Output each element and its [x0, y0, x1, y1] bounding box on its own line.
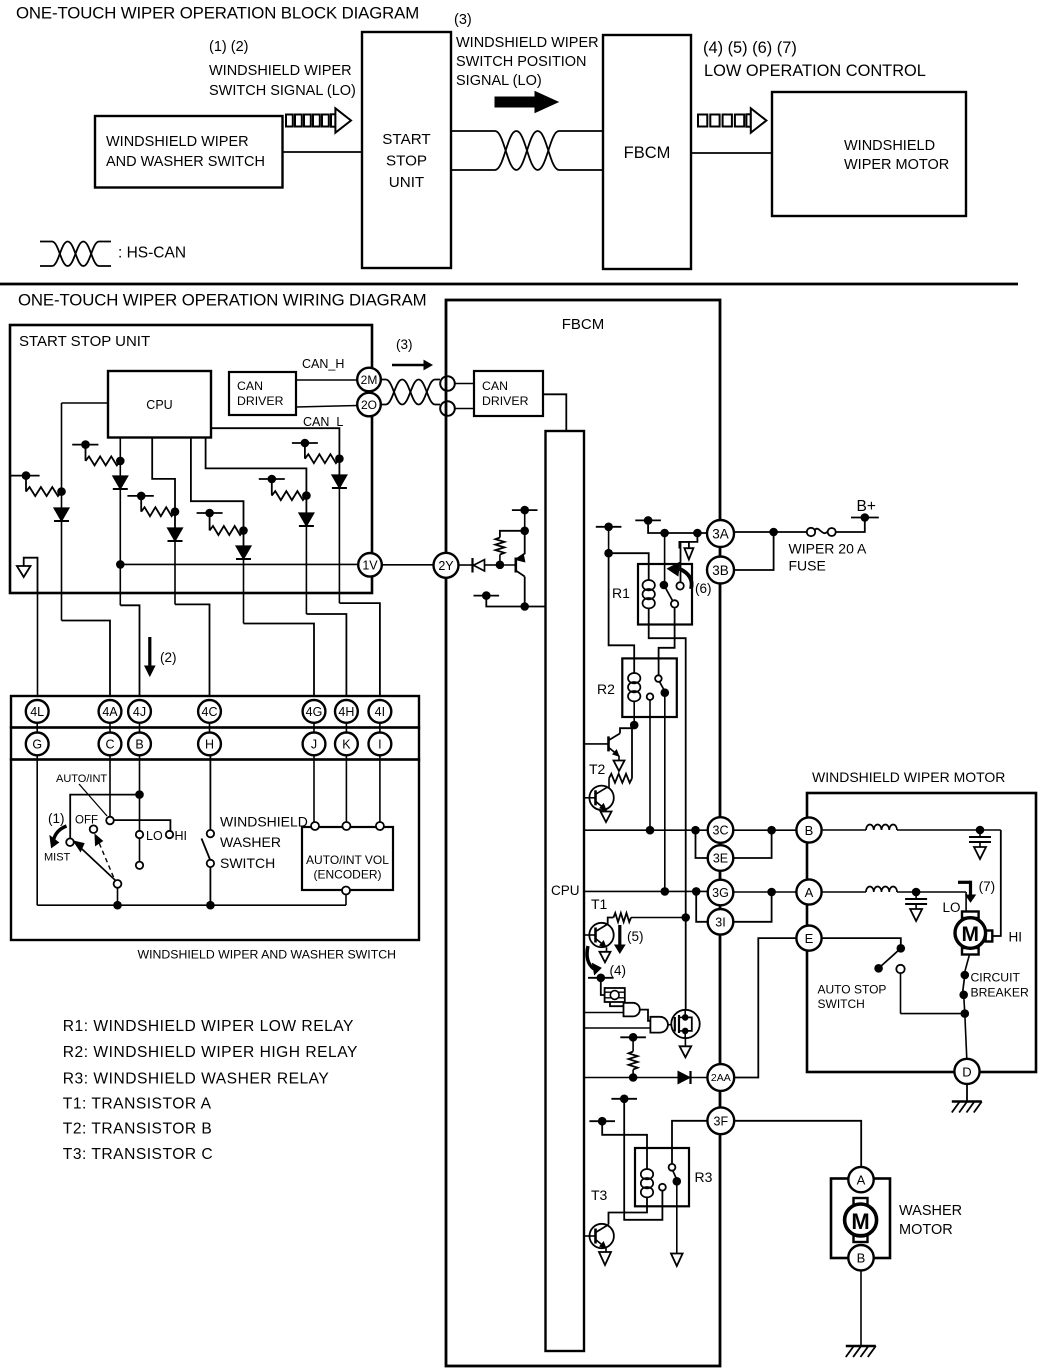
- connector 4C: [198, 700, 221, 723]
- svg-text:SWITCH SIGNAL (LO): SWITCH SIGNAL (LO): [209, 83, 356, 99]
- wire switch to start stop unit: [283, 151, 363, 153]
- wire 3G to A: [733, 891, 796, 893]
- relay R1 NO wire up: [680, 542, 682, 582]
- washer connector B: [848, 1245, 873, 1270]
- svg-text:2O: 2O: [361, 398, 377, 412]
- curved arrow (6): [679, 569, 692, 590]
- connector pin link 4G-J: [313, 722, 315, 733]
- relay R1 coil bottom wire: [649, 609, 686, 1010]
- wire tick to cpu: [486, 596, 545, 607]
- washer motor M: [854, 1198, 868, 1206]
- capacitor A to ground: [915, 892, 917, 899]
- connector 3C: [708, 817, 734, 843]
- auto/int leader line: [79, 784, 107, 816]
- svg-text:4C: 4C: [202, 705, 218, 719]
- svg-text:AUTO/INT VOL: AUTO/INT VOL: [306, 853, 389, 867]
- svg-text:B: B: [857, 1251, 866, 1266]
- wire G down: [36, 755, 38, 905]
- auto/int contact: [106, 817, 114, 825]
- connector I: [369, 733, 392, 756]
- svg-text:3G: 3G: [712, 886, 729, 900]
- wire 3E loop inside: [696, 830, 708, 858]
- cell4 junction dot: [239, 526, 248, 535]
- svg-text:(4) (5) (6) (7): (4) (5) (6) (7): [703, 39, 797, 57]
- connector 4J: [128, 700, 151, 723]
- tick T3 a: [611, 1098, 637, 1100]
- relay R1 coil: [643, 580, 655, 590]
- wire can driver to cpu: [543, 394, 566, 431]
- wiper motor M: [955, 918, 986, 949]
- wire I down: [379, 755, 381, 822]
- washer switch bottom contact: [207, 860, 214, 867]
- cell6 tick: [292, 442, 318, 444]
- wire node to R1 coil: [609, 553, 649, 580]
- relay R1 NC contact: [671, 600, 678, 607]
- junction dot 3C a: [646, 826, 655, 835]
- wire cpu to 2AA diode: [584, 1077, 678, 1079]
- junction dot washer bus: [206, 901, 215, 910]
- wire circle to fbcm can driver L: [455, 408, 474, 410]
- mosfet source arrow: [684, 1038, 686, 1046]
- connector 4H: [335, 700, 358, 723]
- tick bottom left fbcm: [474, 595, 500, 597]
- transistor at 2Y: [500, 564, 516, 566]
- transistor T2: [607, 736, 610, 751]
- wire tick to sensor: [601, 978, 605, 995]
- connector row 1 box: [11, 696, 419, 728]
- junction dot R1 NO feed: [693, 529, 702, 538]
- T2b emitter arrow: [605, 810, 607, 812]
- connector 2AA: [707, 1064, 734, 1091]
- relay R1 NO contact: [676, 582, 683, 589]
- dashed block arrow 2: [698, 115, 707, 127]
- svg-text:(1): (1): [48, 811, 65, 826]
- transistor T1 base wire: [584, 934, 596, 936]
- wire B down: [139, 755, 141, 831]
- cell4 cpu pin wire: [191, 438, 244, 547]
- cell3 tick: [127, 495, 153, 497]
- wire 3C to B: [733, 829, 796, 831]
- solid arrow (3): [495, 92, 558, 113]
- washer switch top contact: [207, 830, 214, 837]
- cell2 tick: [72, 444, 98, 446]
- svg-text:CAN_L: CAN_L: [303, 415, 343, 429]
- cell3 wire down: [174, 541, 176, 604]
- svg-text:B+: B+: [857, 498, 876, 515]
- svg-text:E: E: [805, 931, 814, 946]
- svg-text:LOW OPERATION CONTROL: LOW OPERATION CONTROL: [704, 62, 926, 80]
- svg-text:MIST: MIST: [44, 852, 71, 864]
- svg-text:MOTOR: MOTOR: [899, 1222, 953, 1238]
- block start stop unit: [362, 32, 451, 268]
- bus wire: [37, 904, 346, 906]
- connector G: [26, 733, 49, 756]
- wire HI down: [992, 830, 1001, 936]
- junction dot 3B loop: [769, 528, 778, 537]
- encoder pin I: [376, 822, 384, 830]
- junction dot A cap: [912, 888, 921, 897]
- switch motion hook (6): [679, 542, 689, 549]
- cell3 junction dot: [171, 507, 180, 516]
- wire 3E loop outside: [733, 830, 771, 858]
- svg-text:B: B: [135, 737, 143, 751]
- cell5 cpu pin wire: [206, 438, 307, 514]
- connector pin link 4L-G: [36, 722, 38, 733]
- cell6 resistor: [305, 454, 339, 463]
- capacitor B to ground: [979, 830, 981, 837]
- junction dot T2 collector: [630, 721, 639, 730]
- contact LO: [136, 831, 143, 838]
- connector 4A: [99, 700, 122, 723]
- wiper fuse: [807, 528, 815, 536]
- start stop unit box: [10, 325, 372, 593]
- wire tick to 3A: [648, 520, 707, 533]
- cell2 wire down: [119, 489, 121, 605]
- relay R2 NC contact: [647, 693, 654, 700]
- svg-text:HI: HI: [175, 829, 188, 843]
- svg-text:DRIVER: DRIVER: [237, 394, 284, 408]
- cell4 wire down: [243, 559, 245, 624]
- relay R3 box: [635, 1148, 689, 1206]
- wire A to inductor: [822, 891, 866, 893]
- wire 3B loop: [734, 532, 774, 570]
- svg-text:A: A: [805, 885, 814, 900]
- wire gate2 to mosfet: [668, 1024, 675, 1026]
- cell6 wire down: [338, 488, 340, 603]
- cpu tall box (fbcm): [546, 431, 585, 1351]
- junction dot 3G a: [661, 887, 670, 896]
- svg-text:3C: 3C: [713, 824, 729, 838]
- svg-text:4A: 4A: [102, 705, 118, 719]
- relay R1 blade: [664, 585, 673, 601]
- cell1 tick: [11, 475, 40, 477]
- svg-text:STARTSTOPUNIT: STARTSTOPUNIT: [382, 131, 430, 191]
- svg-text:WINDSHIELD WIPER: WINDSHIELD WIPER: [209, 63, 352, 79]
- svg-text:START STOP UNIT: START STOP UNIT: [19, 333, 150, 350]
- 2AA pullup resistor: [632, 1037, 634, 1051]
- svg-text:C: C: [105, 737, 114, 751]
- svg-text:(3): (3): [454, 12, 472, 28]
- svg-text:3A: 3A: [712, 527, 729, 542]
- wire B to inductor: [822, 829, 866, 831]
- relay R3 NC contact: [659, 1184, 666, 1191]
- block fbcm: [603, 35, 691, 269]
- svg-text:SWITCH POSITION: SWITCH POSITION: [456, 54, 587, 70]
- wire 3F to washer motor: [734, 1121, 861, 1167]
- wire H down: [209, 755, 211, 830]
- svg-text:4L: 4L: [30, 705, 44, 719]
- cell5 diode: [299, 513, 314, 526]
- wire auto/int to HI: [114, 820, 171, 831]
- junction dot 3G b: [692, 887, 701, 896]
- transistor T3: [594, 1229, 597, 1244]
- twisted pair 2M/2O to fbcm: [381, 380, 440, 405]
- relay R1 common dot: [660, 581, 669, 590]
- cell1 wire elbow: [25, 476, 27, 492]
- svg-text:BREAKER: BREAKER: [971, 986, 1029, 1000]
- tick 3A left: [635, 519, 661, 521]
- wire tick down: [608, 527, 610, 553]
- can wire circle bottom: [440, 401, 455, 416]
- encoder pin J: [311, 822, 319, 830]
- connector 3B: [707, 557, 734, 584]
- wire K down: [345, 755, 347, 822]
- wire C down: [109, 755, 111, 816]
- svg-text:H: H: [205, 737, 214, 751]
- wire tick to R3 NC: [624, 1099, 662, 1220]
- cell5 wire elbow: [271, 479, 273, 496]
- inductor A line: [866, 887, 897, 893]
- cell1 step to 4A: [62, 621, 111, 697]
- svg-text:WINDSHIELD WIPER AND WASHER SW: WINDSHIELD WIPER AND WASHER SWITCH: [138, 948, 396, 962]
- encoder pin bottom: [342, 887, 350, 895]
- connector 2O: [357, 393, 381, 417]
- junction dot B wire: [135, 790, 144, 799]
- junction dot 3E outside: [767, 826, 776, 835]
- svg-text:AUTO STOP: AUTO STOP: [818, 983, 887, 997]
- cpu box (start stop unit): [108, 371, 211, 438]
- svg-text:2M: 2M: [361, 373, 378, 387]
- connector 3E: [708, 845, 734, 871]
- cell2 step to 4J: [120, 605, 139, 696]
- inductor B line: [866, 825, 897, 831]
- svg-text:WINDSHIELD WIPER: WINDSHIELD WIPER: [456, 35, 599, 51]
- wire cpu to gate2: [584, 1027, 650, 1029]
- svg-text:K: K: [342, 737, 351, 751]
- svg-text:WASHER: WASHER: [220, 834, 281, 850]
- relay R2 coil bottom wire: [633, 702, 635, 726]
- tick above 2Y transistor: [512, 509, 538, 511]
- svg-text:WIPER 20 A: WIPER 20 A: [789, 541, 867, 557]
- wire fuse to B+: [836, 518, 865, 533]
- relay R3 blade: [673, 1171, 677, 1179]
- svg-text:G: G: [32, 737, 42, 751]
- svg-text:CIRCUIT: CIRCUIT: [971, 971, 1021, 985]
- encoder pin K: [342, 822, 350, 830]
- connector 3I: [708, 909, 734, 935]
- auto stop switch: [897, 944, 906, 953]
- wire 3F to R3: [672, 1121, 707, 1164]
- junction dot R1 coil node: [604, 549, 613, 558]
- T2b collector wire: [607, 786, 609, 789]
- cell2 vertical wire: [119, 438, 121, 477]
- cell2 1v junction dot: [116, 560, 125, 569]
- label (7) arrow: [958, 881, 971, 884]
- wire 1V to 2Y: [382, 564, 434, 566]
- wire LO pole: [139, 838, 141, 861]
- connector 4G: [303, 700, 326, 723]
- cell5 wire down: [305, 526, 307, 614]
- contact OFF: [90, 825, 98, 833]
- svg-text:R3: R3: [695, 1169, 713, 1185]
- svg-text:A: A: [857, 1173, 866, 1188]
- transistor T2 base wire: [584, 743, 608, 745]
- svg-text:WINDSHIELD WIPER: WINDSHIELD WIPER: [106, 134, 249, 150]
- wire J down: [313, 755, 315, 822]
- wire ground to 4L: [37, 593, 39, 696]
- svg-text:T2: T2: [589, 761, 606, 777]
- relay R2 NO contact: [655, 675, 662, 682]
- wire LO down: [965, 892, 967, 912]
- cell4 resistor: [210, 526, 244, 535]
- svg-text:FBCM: FBCM: [624, 144, 671, 162]
- mosfet symbol: [674, 1017, 676, 1032]
- mosfet circle: [671, 1010, 699, 1038]
- curved arrow (4): [587, 946, 594, 969]
- pullup resistor 2Y: [495, 538, 504, 555]
- relay R2 common dot: [661, 688, 670, 697]
- svg-text:T3: T3: [591, 1187, 608, 1203]
- wire D to ground: [966, 1084, 968, 1101]
- cell6 junction dot: [335, 454, 344, 463]
- svg-text:(1) (2): (1) (2): [209, 39, 248, 55]
- wire contact feed down: [664, 533, 666, 585]
- svg-text:AND WASHER SWITCH: AND WASHER SWITCH: [106, 154, 265, 170]
- connector D: [954, 1059, 979, 1084]
- svg-text:R1: WINDSHIELD WIPER LOW RELAY: R1: WINDSHIELD WIPER LOW RELAY: [63, 1018, 354, 1035]
- contact MIST: [66, 838, 74, 846]
- relay R3 common wire down: [676, 1181, 678, 1253]
- wire fbcm to wiper motor: [691, 152, 772, 154]
- svg-text:I: I: [378, 737, 381, 751]
- T3 emitter arrow: [605, 1248, 607, 1252]
- svg-text:WINDSHIELD WIPER MOTOR: WINDSHIELD WIPER MOTOR: [812, 769, 1005, 785]
- relay R3 top contact: [669, 1164, 676, 1171]
- connector 3G: [708, 880, 734, 906]
- wire 3I loop inside: [696, 891, 707, 921]
- svg-text:4I: 4I: [375, 705, 385, 719]
- chassis ground wiper motor: [952, 1100, 982, 1102]
- wire E to auto stop switch: [822, 938, 901, 945]
- connector pin link 4J-B: [139, 722, 141, 733]
- svg-text:(3): (3): [396, 337, 413, 352]
- svg-text:T1: TRANSISTOR A: T1: TRANSISTOR A: [63, 1096, 212, 1113]
- svg-text:WINDSHIELD: WINDSHIELD: [844, 138, 935, 154]
- svg-text:4G: 4G: [306, 705, 323, 719]
- cell1 junction dot: [57, 487, 66, 496]
- junction dot 2AA: [629, 1073, 638, 1082]
- relay R2 common wire to 3G: [664, 693, 666, 892]
- cell3 wire elbow: [140, 496, 142, 512]
- wire to MIST contact: [70, 795, 139, 839]
- label (5) arrow: [618, 925, 621, 946]
- relay R2 NC wire to 3C: [649, 700, 651, 830]
- washer switch blade: [202, 839, 211, 860]
- T1 collector wire: [607, 918, 614, 925]
- cell1 diode: [54, 508, 69, 521]
- svg-text:SWITCH: SWITCH: [818, 997, 865, 1011]
- cell4 diode: [236, 546, 251, 559]
- svg-text:LO: LO: [943, 900, 961, 915]
- svg-text:(2): (2): [160, 650, 177, 665]
- cell4 wire elbow: [209, 513, 211, 531]
- connector 3A: [707, 520, 734, 547]
- connector E: [796, 926, 821, 951]
- svg-text:WINDSHIELD: WINDSHIELD: [220, 814, 308, 830]
- relay R2 coil: [628, 673, 640, 683]
- T1 resistor: [614, 913, 631, 922]
- junction dot drain node: [681, 913, 690, 922]
- svg-text:3B: 3B: [712, 563, 729, 578]
- svg-text:CPU: CPU: [551, 883, 580, 898]
- wire can driver to 2O: [296, 406, 357, 408]
- transistor T3 circle: [590, 1224, 614, 1248]
- svg-text:(ENCODER): (ENCODER): [314, 868, 382, 882]
- dashed block arrow 1: [286, 115, 293, 127]
- svg-text:D: D: [962, 1064, 971, 1079]
- transistor T1 circle: [589, 923, 613, 947]
- junction dot pivot bus: [113, 901, 122, 910]
- svg-text:3E: 3E: [713, 852, 728, 866]
- svg-text:CPU: CPU: [146, 398, 172, 412]
- circuit breaker: [965, 955, 970, 972]
- svg-text:SWITCH: SWITCH: [220, 855, 275, 871]
- svg-text:CAN: CAN: [482, 379, 508, 393]
- wire 2AA to E: [734, 938, 796, 1077]
- wire washer to bus: [209, 867, 211, 905]
- wire circle to fbcm can driver H: [455, 383, 474, 385]
- dashed link to OFF: [99, 842, 114, 878]
- wire tick to collector node: [524, 510, 526, 531]
- connector pin link 4A-C: [109, 722, 111, 733]
- T2 collector wire: [620, 725, 634, 733]
- transistor T3 base wire: [584, 1235, 596, 1237]
- svg-text:4H: 4H: [338, 705, 354, 719]
- svg-text:DRIVER: DRIVER: [482, 394, 529, 408]
- fbcm box: [446, 300, 720, 1366]
- legend hs-can symbol: [40, 242, 111, 267]
- junction dot 3C b: [691, 826, 700, 835]
- svg-text:WIPER MOTOR: WIPER MOTOR: [844, 157, 949, 173]
- connector C: [99, 733, 122, 756]
- can wire circle top: [440, 376, 455, 391]
- junction dot R1 contact feed: [660, 529, 669, 538]
- svg-text:(7): (7): [979, 879, 996, 894]
- separator line: [0, 283, 1018, 286]
- and gate 2: [650, 1017, 668, 1033]
- connector 1V: [358, 553, 382, 577]
- wire encoder to bus: [345, 895, 347, 906]
- connector 2M: [357, 368, 381, 392]
- cell3 step to 4C: [175, 604, 210, 696]
- switch blade pivot: [114, 880, 122, 888]
- svg-text:2AA: 2AA: [711, 1072, 731, 1084]
- transistor T1: [594, 928, 597, 943]
- tick T3 b: [589, 1120, 615, 1122]
- cell3 cpu pin wire: [152, 438, 175, 529]
- svg-text:2Y: 2Y: [438, 559, 454, 573]
- wire 3I loop outside: [733, 892, 771, 922]
- connector pin link 4C-H: [209, 722, 211, 733]
- base junction dot: [496, 561, 505, 570]
- T2 emitter arrow symbol: [618, 756, 620, 761]
- and gate 1: [624, 1003, 640, 1017]
- connector 4I: [369, 700, 392, 723]
- svg-text:M: M: [851, 1209, 869, 1234]
- connector J: [303, 733, 326, 756]
- relay R1 box: [638, 564, 692, 625]
- junction dot B cap: [976, 826, 985, 835]
- wire 3G line: [584, 890, 708, 892]
- svg-text:(5): (5): [627, 929, 644, 944]
- svg-text:T1: T1: [591, 896, 608, 912]
- svg-text:1V: 1V: [362, 558, 378, 572]
- relay R3 common dot: [673, 1177, 682, 1186]
- svg-text:: HS-CAN: : HS-CAN: [118, 245, 186, 262]
- wire 3C line: [584, 829, 707, 831]
- connector 3F: [707, 1107, 734, 1134]
- svg-text:4J: 4J: [133, 705, 146, 719]
